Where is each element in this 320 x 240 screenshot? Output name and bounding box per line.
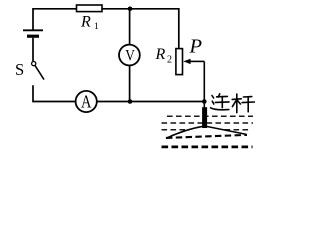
water dash row 2 xyxy=(162,122,254,124)
wire voltmeter lower lead xyxy=(129,65,131,101)
connecting rod xyxy=(202,107,207,128)
float body xyxy=(166,126,246,138)
wire top-left segment xyxy=(33,8,77,10)
ammeter A xyxy=(76,91,97,112)
battery short plate xyxy=(27,35,39,38)
slider arrowhead xyxy=(183,59,190,64)
wire battery to switch xyxy=(32,38,34,61)
node junction dot top xyxy=(128,7,133,12)
svg-text:1: 1 xyxy=(94,22,99,32)
svg-text:2: 2 xyxy=(167,55,172,66)
svg-text:S: S xyxy=(15,60,24,79)
node junction dot right xyxy=(202,99,207,104)
switch blade xyxy=(35,66,44,80)
wire slider vertical xyxy=(203,61,205,108)
switch pivot circle xyxy=(32,62,36,66)
svg-text:V: V xyxy=(125,48,135,65)
label lian (连) xyxy=(211,94,229,110)
rheostat R2 body xyxy=(176,49,183,75)
label gan (杆) xyxy=(232,94,254,113)
wire switch to bottom corner xyxy=(33,85,76,101)
wire battery drop xyxy=(32,8,34,30)
voltmeter V xyxy=(119,45,140,66)
wire top-right segment xyxy=(102,8,179,10)
wire voltmeter upper lead xyxy=(129,9,131,45)
water dash row 4 bold xyxy=(166,135,247,138)
node junction dot bottom (voltmeter tap) xyxy=(128,99,133,104)
water dash row 3 xyxy=(162,129,252,131)
svg-text:A: A xyxy=(81,92,92,112)
wire bottom right segment xyxy=(97,101,205,103)
resistor R1 xyxy=(77,5,103,12)
svg-text:P: P xyxy=(189,36,203,58)
slider arrow wire xyxy=(189,60,204,62)
water dash row 1 xyxy=(167,115,253,117)
wire right vertical to R2 xyxy=(178,8,180,49)
float left slope xyxy=(166,126,205,138)
svg-text:R: R xyxy=(80,14,91,31)
svg-text:R: R xyxy=(155,46,166,63)
float right slope xyxy=(205,126,247,134)
battery long plate xyxy=(23,29,43,31)
water dash row 5 bold xyxy=(162,145,253,148)
